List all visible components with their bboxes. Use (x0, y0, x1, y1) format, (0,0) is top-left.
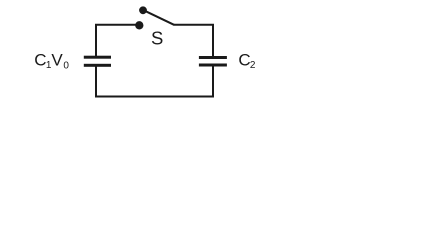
svg-text:V: V (51, 51, 63, 70)
svg-text:0: 0 (63, 61, 69, 72)
svg-text:C: C (34, 51, 46, 70)
svg-text:2: 2 (250, 60, 256, 71)
svg-text:C: C (238, 51, 250, 70)
svg-text:S: S (151, 28, 163, 49)
